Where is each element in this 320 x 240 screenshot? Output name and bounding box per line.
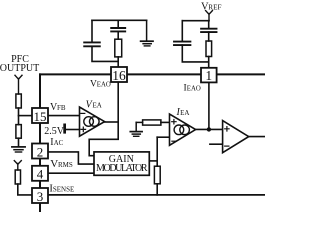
svg-text:EAO: EAO	[97, 81, 111, 88]
svg-text:2: 2	[37, 144, 44, 159]
svg-text:FB: FB	[57, 104, 66, 112]
svg-text:AC: AC	[54, 140, 64, 147]
svg-text:2.5V: 2.5V	[44, 126, 65, 137]
svg-text:EAO: EAO	[187, 86, 201, 93]
svg-text:3: 3	[37, 189, 44, 204]
svg-text:MODULATOR: MODULATOR	[96, 163, 148, 174]
svg-text:RMS: RMS	[58, 161, 73, 169]
svg-text:SENSE: SENSE	[53, 185, 74, 193]
svg-text:EA: EA	[180, 109, 189, 117]
svg-text:REF: REF	[208, 3, 221, 11]
svg-text:15: 15	[34, 109, 47, 124]
svg-text:EA: EA	[93, 101, 102, 109]
svg-text:16: 16	[112, 68, 126, 83]
svg-text:1: 1	[205, 68, 212, 83]
svg-text:4: 4	[37, 167, 44, 182]
svg-text:OUTPUT: OUTPUT	[0, 63, 39, 74]
